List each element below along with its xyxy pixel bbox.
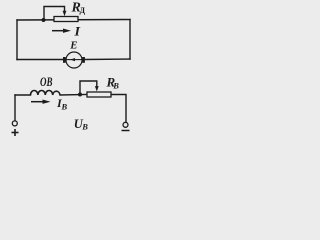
arrow of rheostat Rd bbox=[63, 11, 67, 16]
wire left side of armature loop bbox=[16, 20, 18, 60]
svg-text:I: I bbox=[73, 24, 81, 39]
svg-text:ОВ: ОВ bbox=[40, 75, 53, 89]
label E bbox=[69, 40, 77, 52]
wire bottom circuit main bbox=[15, 94, 31, 96]
label Uv bbox=[74, 117, 89, 132]
label OV winding bbox=[40, 75, 53, 89]
wire bottom side left segment bbox=[17, 59, 64, 61]
wire coil to node bbox=[60, 94, 87, 97]
label Iv bbox=[56, 96, 68, 111]
brush left of armature bbox=[63, 57, 66, 63]
terminal minus circle bbox=[123, 122, 128, 127]
wire left terminal drop bbox=[14, 95, 16, 121]
resistor Rd body bbox=[54, 17, 78, 22]
wire rheostat bypass Rd bbox=[44, 7, 65, 21]
terminal plus circle bbox=[12, 121, 17, 126]
wire bottom side right segment bbox=[85, 58, 130, 61]
wire top side of armature loop bbox=[17, 19, 130, 22]
inductor OV field winding coil bbox=[31, 91, 61, 96]
resistor Rv body bbox=[87, 92, 111, 97]
generator armature circle E bbox=[66, 52, 82, 68]
label Rv bbox=[106, 75, 120, 91]
svg-text:Д: Д bbox=[80, 6, 86, 15]
svg-text:В: В bbox=[81, 122, 88, 132]
arrow current I bbox=[52, 29, 71, 33]
label minus bbox=[122, 130, 130, 132]
svg-text:E: E bbox=[69, 40, 77, 52]
svg-text:В: В bbox=[61, 101, 68, 111]
node A junction dot bbox=[42, 18, 46, 22]
arrow of rheostat Rv bbox=[95, 86, 99, 91]
brush right of armature bbox=[82, 57, 85, 63]
wire right side of armature loop bbox=[129, 20, 131, 60]
wire rheostat bypass Rv bbox=[80, 81, 97, 95]
wire resistor Rv to right corner bbox=[111, 95, 126, 123]
label I bbox=[73, 24, 81, 39]
label plus bbox=[12, 129, 19, 136]
svg-text:В: В bbox=[112, 80, 119, 90]
node B junction dot bbox=[78, 93, 82, 97]
arrow current Iv bbox=[31, 100, 51, 104]
arrow EMF inside armature bbox=[67, 58, 82, 61]
label Rd bbox=[71, 1, 86, 16]
